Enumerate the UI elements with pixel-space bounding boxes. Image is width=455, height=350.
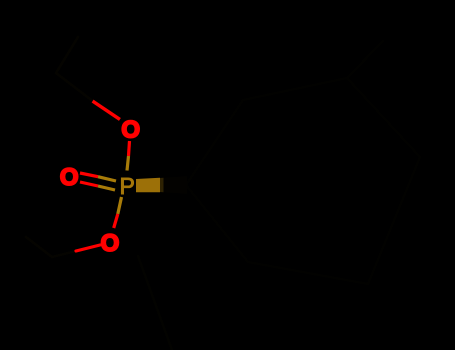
ethyl CH3 bottom-left	[26, 237, 52, 257]
P=O double bond lower line	[80, 182, 98, 186]
carbon skeleton (dark C-C bonds)	[26, 37, 420, 350]
svg-text:O: O	[60, 164, 79, 191]
svg-text:P: P	[120, 173, 135, 199]
ethyl CH3-CH2 top-left	[56, 37, 78, 73]
P=O double bond upper line	[80, 173, 98, 177]
svg-text:O: O	[121, 116, 140, 143]
bond O-P gold half (vertical)	[127, 156, 129, 171]
bond P-O gold half (to bottom O)	[118, 197, 122, 214]
ethyl CH2 dark half bottom-left	[52, 251, 76, 257]
bond P-O red half (to bottom O)	[114, 214, 118, 228]
wedge gold half (from P)	[136, 178, 160, 193]
methyl substituent	[347, 41, 383, 78]
cyclohexane ring	[186, 78, 420, 284]
svg-text:O: O	[101, 230, 120, 257]
ethyl CH2-O dark half top-left	[56, 73, 94, 102]
bond O-P red half (vertical)	[129, 141, 130, 156]
bond O-CH2 red half (top-left)	[94, 102, 119, 119]
stray bond fragment bottom	[138, 256, 172, 350]
wedge dark half (to ring carbon)	[160, 178, 164, 192]
bond O-CH2 red half (bottom-left)	[76, 245, 100, 251]
